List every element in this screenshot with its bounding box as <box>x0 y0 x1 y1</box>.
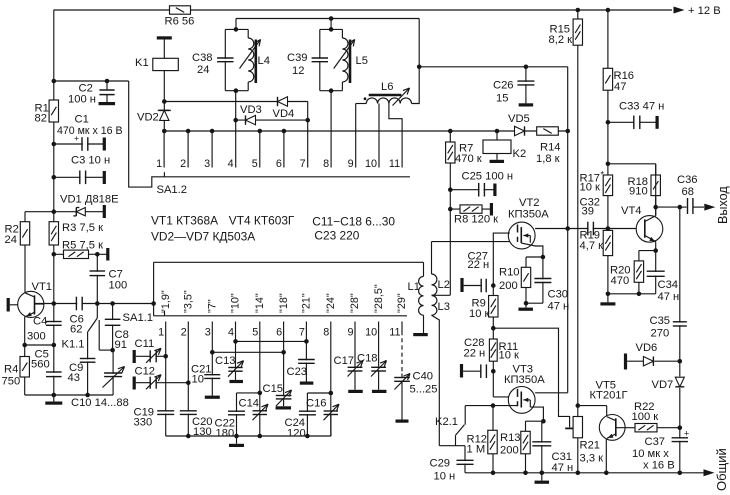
svg-text:4,7 к: 4,7 к <box>580 240 604 252</box>
resistor R22 <box>635 424 657 432</box>
node C37 foot <box>678 471 683 476</box>
capacitor C33 <box>608 121 634 123</box>
node C33 <box>606 120 611 125</box>
terminal below C40 <box>396 420 409 423</box>
node line5/C22 <box>258 391 263 396</box>
capacitor C13 variable <box>233 368 237 370</box>
ground below C13 <box>229 380 243 383</box>
svg-text:91: 91 <box>115 339 127 351</box>
wire SA1.2 common bus y131 <box>164 130 567 132</box>
node line3 strap <box>210 350 215 355</box>
wire strap line3-line6 <box>212 351 283 353</box>
wire emitter to R20 <box>639 250 656 252</box>
wire line2 (contact2) <box>187 331 189 436</box>
svg-text:10 к: 10 к <box>580 181 601 193</box>
svg-text:C11−C18 6...30: C11−C18 6...30 <box>312 214 395 228</box>
wire VT3 drain <box>535 392 568 394</box>
svg-text:330: 330 <box>134 417 153 429</box>
node R5/C7 junction <box>95 252 100 257</box>
node bus/C14 <box>258 434 263 439</box>
svg-text:8: 8 <box>323 326 329 338</box>
diode VD6 <box>624 354 627 370</box>
svg-text:10: 10 <box>192 373 204 385</box>
svg-text:180: 180 <box>216 428 235 440</box>
wire VT4 collector to C36 <box>655 164 657 216</box>
wire R7 column foot to L2/L3 tap <box>432 294 451 296</box>
svg-text:VD4: VD4 <box>273 108 295 120</box>
svg-text:C30: C30 <box>548 289 569 301</box>
diode VD5 <box>515 126 525 135</box>
svg-text:"29": "29" <box>396 293 408 313</box>
svg-text:"18": "18" <box>278 293 290 313</box>
svg-text:68: 68 <box>682 186 694 198</box>
svg-text:C1: C1 <box>75 114 89 126</box>
svg-text:L2: L2 <box>438 279 450 291</box>
node VD5/R14 junction <box>565 129 570 134</box>
wire line10 (contact10) <box>378 331 380 390</box>
resistor R21 <box>577 406 579 473</box>
svg-text:39: 39 <box>582 205 594 217</box>
tank circuit C39/L5 <box>330 19 332 30</box>
svg-text:10 к: 10 к <box>499 350 520 362</box>
node C11/line1 <box>163 354 168 359</box>
node bus contact5 <box>258 129 263 134</box>
wire tank link y18.5 <box>236 18 419 20</box>
wire L4 to SA1.2 contact 4 <box>235 91 237 131</box>
svg-text:C10 14...88: C10 14...88 <box>71 397 129 409</box>
wire ground row y293.8 <box>608 293 656 295</box>
node VT4 collector <box>653 205 658 210</box>
capacitor C18 variable <box>376 368 380 370</box>
node R10 foot <box>524 301 529 306</box>
svg-text:1: 1 <box>156 158 162 170</box>
wire VT1 emitter row y345 <box>25 344 54 346</box>
svg-text:"1,9": "1,9" <box>160 290 172 313</box>
svg-text:4: 4 <box>228 158 234 170</box>
capacitor C38 <box>223 59 227 61</box>
wire line1 (contact1) <box>165 331 167 436</box>
wire K2.1 to C29 <box>439 445 465 447</box>
svg-text:КП350А: КП350А <box>508 209 549 221</box>
svg-text:4: 4 <box>228 326 234 338</box>
relay contact K2.1 <box>464 406 466 425</box>
svg-text:*: * <box>601 170 605 180</box>
svg-text:5: 5 <box>252 326 258 338</box>
svg-text:C11: C11 <box>135 338 155 350</box>
svg-text:R4: R4 <box>4 364 18 376</box>
node VT2 drain junction <box>565 226 570 231</box>
node on +12V rail at R15 <box>576 8 581 13</box>
svg-text:C33 47 н: C33 47 н <box>619 101 664 113</box>
capacitor C36 <box>680 206 687 208</box>
node C3 junction <box>52 175 57 180</box>
svg-text:10: 10 <box>365 326 377 338</box>
svg-text:750: 750 <box>2 376 21 388</box>
wire bus to C16 <box>330 415 332 436</box>
capacitor C8 <box>112 304 114 351</box>
svg-text:K1: K1 <box>135 57 149 69</box>
wire L6 left end to contact 9 <box>356 103 367 105</box>
node R18 branch <box>606 162 611 167</box>
node on +12V rail at R16 <box>606 8 611 13</box>
node R12 foot <box>491 471 496 476</box>
relay contact K1.1 <box>96 304 98 319</box>
svg-text:3,3 к: 3,3 к <box>580 453 604 465</box>
ground below C21 <box>205 396 220 399</box>
wire line9 (contact9) <box>354 331 356 390</box>
node bus contact6 <box>282 129 287 134</box>
wire line8 (contact8) <box>330 331 332 436</box>
capacitor C16 variable <box>329 412 333 414</box>
relay K2 coil <box>496 131 498 140</box>
svg-text:"28,5": "28,5" <box>373 284 385 313</box>
svg-text:VD5: VD5 <box>508 113 530 125</box>
svg-text:"21": "21" <box>301 293 313 313</box>
svg-text:C23 220: C23 220 <box>314 229 359 243</box>
node line4 strap <box>233 339 238 344</box>
common terminal arrow <box>704 469 715 476</box>
node bus/C20 <box>186 434 191 439</box>
svg-text:C4: C4 <box>33 316 47 328</box>
svg-text:10 н: 10 н <box>434 471 456 483</box>
resistor R10 <box>521 267 530 287</box>
wire left rail (R1/R3 column) <box>53 10 55 395</box>
diode VD1 zener <box>54 211 103 213</box>
capacitor C30 <box>542 257 544 303</box>
node R9 foot <box>491 326 496 331</box>
capacitor C12 variable <box>133 377 136 390</box>
wire C32 row y228.5 <box>568 228 645 230</box>
svg-text:VD7: VD7 <box>652 379 674 391</box>
chassis terminal at VD1 <box>103 205 106 218</box>
diode VD4 <box>278 97 288 106</box>
svg-text:C34: C34 <box>658 279 679 291</box>
svg-text:470 к: 470 к <box>455 153 482 165</box>
svg-text:10: 10 <box>365 158 377 170</box>
resistor R14 <box>537 127 559 135</box>
capacitor C24 <box>306 393 308 436</box>
wire R10/C30 foot <box>526 302 543 304</box>
resistor R19 <box>603 230 612 255</box>
node line8/C24 <box>329 391 334 396</box>
capacitor C22 <box>236 393 238 436</box>
svg-text:22 н: 22 н <box>464 347 486 359</box>
wire VT2 gate2 jog / R9 column <box>493 233 510 328</box>
wire L6 tap to contact 10 <box>378 104 380 132</box>
svg-text:SA1.1: SA1.1 <box>123 312 153 324</box>
node R21 foot <box>576 471 581 476</box>
capacitor C1 (electrolytic) <box>54 143 103 145</box>
svg-text:C37: C37 <box>645 436 666 448</box>
svg-text:VD3: VD3 <box>240 104 262 116</box>
chassis terminal at C1 <box>103 138 106 151</box>
node main/K1.1 <box>95 301 100 306</box>
node main/left-rail <box>52 301 57 306</box>
node R21/VT5 top <box>576 403 581 408</box>
tank circuit C38/L4 <box>235 19 237 30</box>
capacitor C3 <box>54 176 103 178</box>
svg-text:C39: C39 <box>287 52 308 64</box>
node L5 top <box>329 16 334 21</box>
ground below R10 <box>525 303 527 307</box>
svg-text:L6: L6 <box>381 81 393 93</box>
wire VD3 row y120 <box>236 119 308 121</box>
diode VD7 <box>679 361 681 428</box>
svg-text:15: 15 <box>496 93 508 105</box>
svg-text:"24": "24" <box>325 293 337 313</box>
wire line5 (contact5) <box>259 331 261 436</box>
svg-text:КП350А: КП350А <box>504 374 545 386</box>
capacitor C4 <box>52 322 56 324</box>
resistor R5 <box>54 253 107 255</box>
svg-text:"7": "7" <box>207 299 219 313</box>
capacitor C39 <box>318 59 322 61</box>
svg-text:1 М: 1 М <box>467 444 486 456</box>
wire strap line4-line7 <box>236 340 307 342</box>
svg-text:910: 910 <box>629 185 648 197</box>
svg-text:C36: C36 <box>677 174 698 186</box>
resistor R15 <box>577 10 579 406</box>
svg-text:1: 1 <box>158 326 164 338</box>
svg-text:6: 6 <box>276 326 282 338</box>
svg-text:VD1 Д818Е: VD1 Д818Е <box>60 194 119 206</box>
svg-text:C13: C13 <box>215 355 236 367</box>
transformer winding L3 <box>432 296 437 316</box>
capacitor C10 variable <box>112 350 114 395</box>
node bus/C24 <box>305 434 310 439</box>
svg-text:VT1: VT1 <box>32 281 53 293</box>
capacitor C11 variable <box>133 350 136 363</box>
svg-text:+: + <box>684 428 689 438</box>
svg-text:7: 7 <box>299 326 305 338</box>
svg-text:200: 200 <box>500 444 519 456</box>
svg-text:R6 56: R6 56 <box>165 15 195 27</box>
svg-text:"10": "10" <box>230 293 242 313</box>
wire line11 dashed (contact11) <box>401 331 403 374</box>
svg-text:R5 7,5 к: R5 7,5 к <box>62 239 103 251</box>
svg-text:VD2: VD2 <box>137 112 159 124</box>
wire L6 right end riser <box>412 19 420 104</box>
wire strap C24-line8 <box>307 392 330 394</box>
svg-text:VT1 КТ368А: VT1 КТ368А <box>151 214 218 228</box>
inductor L4 variable <box>248 38 254 82</box>
node C26 <box>524 65 529 70</box>
resistor R2 <box>20 222 29 245</box>
svg-text:200: 200 <box>499 280 518 292</box>
wire VT2 source <box>521 243 543 257</box>
resistor R16 column <box>607 10 609 294</box>
wire VT2 drain <box>535 228 568 230</box>
relay K1 coil <box>157 36 172 39</box>
resistor R1 <box>49 100 58 122</box>
svg-text:L5: L5 <box>356 55 368 67</box>
resistor R13 <box>525 421 527 473</box>
node K1/VD2/VD4 <box>162 99 167 104</box>
resistor R17 <box>603 175 612 196</box>
svg-text:+: + <box>74 133 79 143</box>
node VT5 emitter foot <box>604 471 609 476</box>
resistor R11 <box>492 328 494 397</box>
svg-text:L4: L4 <box>258 55 270 67</box>
capacitor C9 <box>87 332 89 396</box>
wire strap C22-line5 <box>237 392 260 394</box>
node VT2 source junction <box>541 255 546 260</box>
resistor R8 <box>448 207 453 212</box>
node L6/C26 branch <box>417 65 422 70</box>
resistor R20 <box>634 261 643 282</box>
power terminal +12 V arrow <box>674 7 685 14</box>
inductor L5 variable <box>342 38 348 82</box>
svg-text:120: 120 <box>287 427 306 439</box>
svg-text:R10: R10 <box>499 267 520 279</box>
svg-text:R21: R21 <box>580 440 601 452</box>
wire line4 (contact4) <box>235 331 237 380</box>
output terminal arrow <box>704 204 715 211</box>
node C31 foot / ground <box>540 471 545 476</box>
chassis terminal at C33 <box>656 116 659 129</box>
wire VT2 gate1 row <box>432 241 510 243</box>
svg-text:R14: R14 <box>540 142 561 154</box>
wire cap-bank bus y436 <box>166 435 331 437</box>
capacitor C28 <box>460 364 463 378</box>
svg-text:C14: C14 <box>239 397 260 409</box>
resistor R6 <box>170 6 191 14</box>
capacitor C14 variable <box>258 412 262 414</box>
resistor R12 <box>492 406 494 473</box>
wire line6 (contact6) <box>283 352 285 406</box>
ground below R19 <box>607 294 609 303</box>
capacitor C29 <box>464 446 466 473</box>
switch SA1.1 contact stubs and numbers <box>165 322 167 332</box>
node C1 junction <box>52 142 57 147</box>
chassis terminal at R5 <box>106 248 109 261</box>
diode VD2 <box>163 102 165 132</box>
svg-text:VD6: VD6 <box>636 342 658 354</box>
wire TX row y66.8 <box>419 66 568 68</box>
svg-text:43: 43 <box>68 372 80 384</box>
wire line7 (contact7) <box>305 331 307 382</box>
capacitor C7 <box>96 254 98 303</box>
svg-text:VT4 КТ603Г: VT4 КТ603Г <box>229 214 295 228</box>
svg-text:C15: C15 <box>263 383 284 395</box>
node R12/G2 <box>491 403 496 408</box>
resistor R9 <box>489 296 498 318</box>
svg-text:C17: C17 <box>334 355 355 367</box>
svg-text:8,2 к: 8,2 к <box>549 34 573 46</box>
diode VD3 <box>246 115 256 124</box>
svg-text:47: 47 <box>614 81 626 93</box>
svg-text:2: 2 <box>180 158 186 170</box>
svg-text:VT2: VT2 <box>519 197 540 209</box>
svg-text:22 н: 22 н <box>468 259 490 271</box>
svg-text:1,8 к: 1,8 к <box>536 153 560 165</box>
svg-text:R13: R13 <box>500 432 521 444</box>
node bus contact2 <box>186 129 191 134</box>
node main line into SA1.1 <box>151 301 156 306</box>
node C27/R9 <box>491 283 496 288</box>
switch SA1.1 box top <box>154 261 421 263</box>
capacitor C21 <box>210 376 214 378</box>
capacitor C23 <box>304 360 308 362</box>
ground below K2 <box>490 160 505 163</box>
svg-text:K2: K2 <box>513 148 527 160</box>
svg-text:62: 62 <box>70 324 82 336</box>
capacitor C5 <box>52 373 56 376</box>
svg-text:C26: C26 <box>493 79 514 91</box>
svg-text:5: 5 <box>252 158 258 170</box>
node R17/R19/VT4 base <box>606 226 611 231</box>
wire VT4 emitter <box>655 242 657 251</box>
svg-text:47 н: 47 н <box>552 462 574 474</box>
wire L6 tap2 to contact 11 <box>389 104 402 132</box>
node bus/C22 + ground <box>234 434 239 439</box>
node R13 foot <box>523 471 528 476</box>
svg-text:C25 100 н: C25 100 н <box>462 170 514 182</box>
svg-text:9: 9 <box>348 158 354 170</box>
svg-text:SA1.2: SA1.2 <box>157 184 187 196</box>
svg-text:VT4: VT4 <box>621 205 642 217</box>
svg-text:Выход: Выход <box>716 186 730 224</box>
wire VT3 source <box>530 407 543 421</box>
chassis terminal at C3 <box>103 171 106 184</box>
capacitor C19 <box>164 412 168 414</box>
ground below C18 <box>372 390 387 393</box>
capacitor C2 <box>105 79 110 84</box>
wire VT3 gate2 row <box>465 405 517 407</box>
svg-text:"28": "28" <box>349 293 361 313</box>
capacitor C17 variable <box>353 368 357 370</box>
svg-text:7: 7 <box>300 158 306 170</box>
svg-text:C18: C18 <box>357 353 378 365</box>
svg-text:9: 9 <box>347 326 353 338</box>
input terminal at VT1 case <box>7 298 10 312</box>
svg-text:11: 11 <box>389 158 400 170</box>
wire line3 (contact3) <box>211 331 213 396</box>
svg-text:5...25: 5...25 <box>410 383 438 395</box>
wire to R10 <box>526 256 543 258</box>
capacitor C40 variable <box>401 374 403 378</box>
ground below C2 <box>99 102 116 105</box>
node line6 strap <box>281 350 286 355</box>
svg-text:100: 100 <box>109 280 128 292</box>
wire common bus y472.8 <box>465 472 705 474</box>
svg-text:24: 24 <box>5 234 17 246</box>
wire main signal line y303.5 <box>35 303 154 305</box>
svg-text:12: 12 <box>292 65 304 77</box>
ground below C17 <box>348 390 363 393</box>
svg-text:C38: C38 <box>192 52 213 64</box>
node R22/C37/VD7 <box>657 427 680 429</box>
node bus contact3 <box>210 129 215 134</box>
svg-text:10 мк x: 10 мк x <box>632 448 669 460</box>
svg-text:24: 24 <box>197 64 209 76</box>
ground below C26 <box>519 103 534 106</box>
svg-text:x 16 В: x 16 В <box>643 459 675 471</box>
wire output row y207.1 <box>678 205 683 210</box>
ground below C23 <box>300 382 314 385</box>
svg-text:270: 270 <box>651 328 670 340</box>
capacitor C20 <box>186 412 190 414</box>
wire L3 to K2.1 <box>432 315 440 446</box>
ground below L1 <box>413 333 428 336</box>
svg-text:3: 3 <box>204 158 210 170</box>
capacitor C32 <box>589 226 593 230</box>
switch SA1.1 wiper bar <box>154 315 407 317</box>
svg-text:+ 12 В: + 12 В <box>688 5 721 17</box>
svg-text:82: 82 <box>35 113 47 125</box>
svg-text:КТ201Г: КТ201Г <box>590 390 628 402</box>
wire L5 to SA1.2 contact 8 <box>330 91 332 131</box>
